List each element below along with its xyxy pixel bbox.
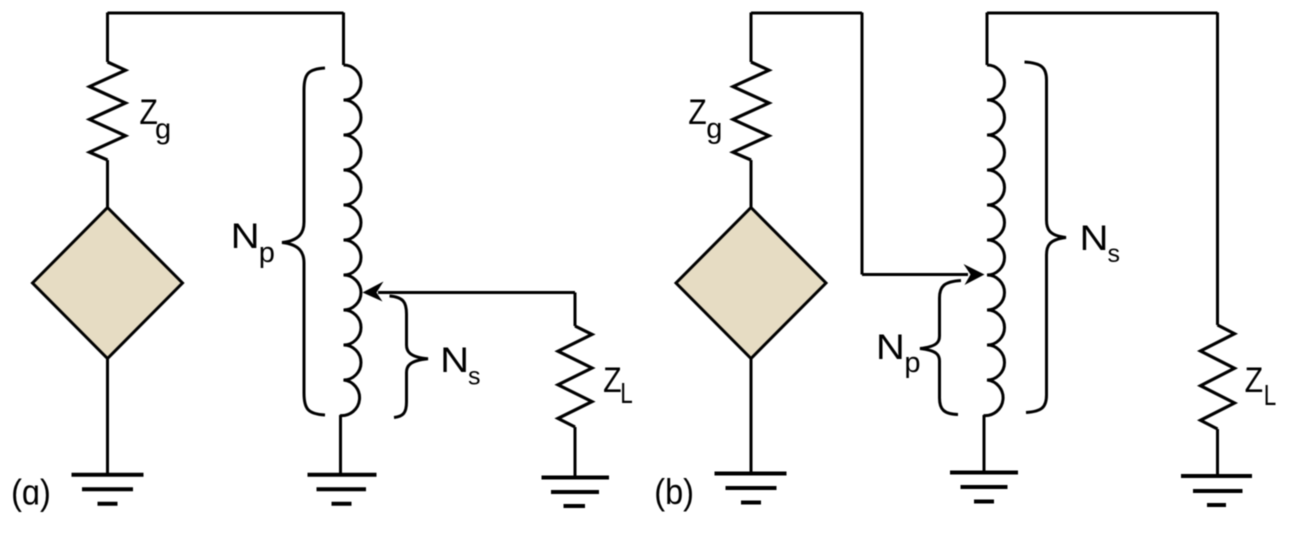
svg-text:Z: Z — [1245, 361, 1264, 400]
svg-text:N: N — [876, 328, 905, 367]
svg-text:Z: Z — [603, 361, 622, 400]
svg-text:g: g — [706, 113, 722, 145]
svg-text:(b): (b) — [654, 471, 694, 512]
svg-text:N: N — [231, 217, 260, 256]
svg-text:Z: Z — [688, 93, 707, 132]
svg-text:g: g — [155, 114, 171, 146]
svg-text:s: s — [468, 363, 481, 391]
svg-text:N: N — [1080, 219, 1109, 258]
svg-text:s: s — [1108, 240, 1121, 268]
svg-text:L: L — [620, 378, 633, 410]
svg-text:p: p — [259, 237, 275, 269]
svg-text:(ɑ): (ɑ) — [11, 472, 51, 513]
svg-text:p: p — [904, 347, 920, 379]
svg-text:N: N — [440, 341, 469, 380]
svg-text:L: L — [1264, 380, 1277, 412]
